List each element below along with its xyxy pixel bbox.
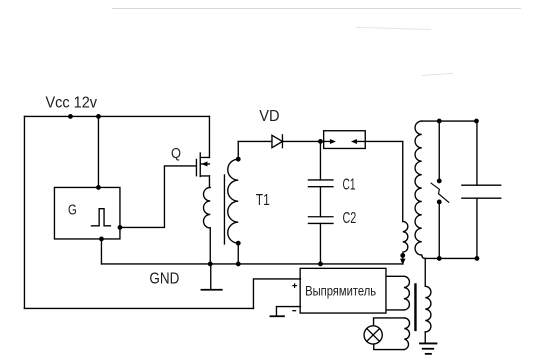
wire secondary bottom to rail (237, 243, 239, 264)
wire tall coil bottom curl (422, 255, 425, 258)
scan artifact streak top (112, 8, 520, 75)
transistor Q1 mosfet (196, 153, 209, 177)
label plus (292, 283, 297, 288)
wire primary to ground rail (209, 228, 211, 264)
label minus (292, 310, 296, 312)
node spark branch bottom (438, 257, 442, 261)
wire G box bottom to ground rail (100, 239, 102, 264)
wire T1 top to diode (238, 140, 272, 142)
rectifier box (300, 268, 386, 313)
capacitor tesla tank (462, 185, 501, 198)
node G box output (118, 226, 122, 230)
wire rectifier to output primary top (386, 275, 404, 277)
node cap branch bottom (475, 257, 479, 261)
diode VD (272, 135, 283, 148)
wire riser to rectifier plus (253, 279, 300, 309)
arrow to ground rail (400, 255, 405, 265)
svg-text:C1: C1 (343, 176, 356, 193)
wire lamp top (374, 318, 405, 326)
transformer T1 secondary winding (228, 159, 239, 243)
bottom rail tesla (425, 257, 477, 259)
wire Vcc to G box (97, 116, 99, 187)
wire bottom supply return (24, 307, 253, 309)
svg-text:Q: Q (171, 145, 181, 162)
arrester right electrode arrow (351, 139, 365, 144)
node T1 secondary bottom (237, 241, 241, 245)
svg-text:Выпрямитель: Выпрямитель (305, 283, 376, 299)
node spark branch top (438, 119, 442, 123)
wire diode to node (282, 140, 320, 142)
node primary on rail (209, 262, 213, 266)
transformer T1 primary winding (204, 187, 211, 228)
svg-text:T1: T1 (256, 192, 270, 209)
output transformer primary winding (404, 276, 410, 310)
wire tesla bottom to output secondary (424, 258, 426, 286)
arrester left electrode arrow (320, 139, 336, 144)
top rail tesla (422, 120, 477, 122)
ground rail GND (101, 263, 403, 265)
node cap branch top (475, 119, 479, 123)
pulse symbol (91, 209, 110, 226)
wire lamp bottom (374, 344, 405, 350)
wire C1 to C2 (319, 187, 321, 217)
svg-text:Vcc 12v: Vcc 12v (46, 94, 98, 111)
wire spark branch upper (438, 121, 440, 181)
coupling coil L1 (403, 221, 408, 252)
wire T1 secondary top (237, 141, 239, 159)
lamp winding (404, 318, 409, 350)
lamp HL1 (364, 326, 382, 344)
wire cap branch lower (476, 198, 478, 258)
spark gap electrodes (438, 179, 442, 183)
capacitor C2 (308, 217, 333, 224)
wire cap branch upper (476, 121, 478, 185)
ground symbol minus (270, 315, 284, 317)
capacitor C1 (308, 180, 333, 187)
spark gap arrester box (324, 131, 366, 149)
output transformer core (414, 284, 416, 330)
wire spark branch lower (438, 202, 440, 259)
svg-text:VD: VD (259, 108, 279, 125)
svg-text:GND: GND (149, 270, 179, 287)
node G box top (97, 186, 101, 190)
node G box bottom (100, 237, 104, 241)
node Vcc to G box (97, 115, 101, 119)
spark gap slash (431, 183, 449, 202)
node diode output (319, 140, 323, 144)
svg-text:C2: C2 (343, 210, 357, 227)
generator G box (54, 187, 120, 239)
svg-text:G: G (68, 202, 77, 219)
ground symbol GND (201, 264, 221, 290)
node secondary on rail (237, 262, 241, 266)
node coupling coil bottom (401, 254, 405, 258)
tesla primary tall winding (415, 121, 422, 255)
node T1 secondary top (237, 157, 241, 161)
wire rectifier minus (276, 307, 300, 316)
transformer T1 core (223, 175, 225, 244)
output transformer secondary winding (425, 286, 431, 332)
wire arrester to coupling coil (365, 141, 403, 221)
wire left supply side (23, 116, 25, 308)
wire G output to gate (120, 166, 197, 228)
wire node to C1 (319, 141, 321, 180)
wire source down (208, 176, 210, 188)
wire output primary bottom (386, 309, 404, 311)
wire drain to Vcc (208, 116, 210, 157)
node C2 on rail (319, 262, 323, 266)
wire secondary to earth (424, 332, 426, 343)
wire Vcc top rail (24, 115, 209, 117)
wire C2 to ground rail (319, 223, 321, 264)
node on Vcc rail (69, 115, 73, 119)
earth ground (420, 343, 437, 353)
